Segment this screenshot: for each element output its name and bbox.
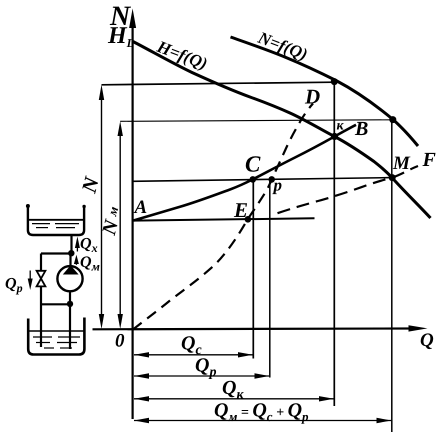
lower junction dot [67,301,73,307]
svg-text:B: B [354,118,368,140]
valve branch vertical lower [40,286,42,347]
shallow dashed curve through M and F [278,166,419,213]
point E [245,216,252,223]
lower tank walls [28,318,84,355]
point dot above M on N-curve [389,116,396,123]
svg-text:D: D [304,85,320,109]
dimension row Qp (y=376) [134,375,269,377]
svg-text:Qм = Qс + Qр: Qм = Qс + Qр [214,400,309,425]
point K [331,133,338,140]
curve N=f(Q) [231,37,419,146]
junction dot upper [68,250,74,256]
dropline from C (x=253) [252,179,254,358]
valve branch vertical upper [40,254,42,272]
lower tank water line [29,330,84,332]
dropline from P (x=269.8) [269,179,271,377]
Qm arrow (up) [75,260,77,265]
svg-text:Q: Q [420,330,434,351]
rising curve from A through C and K [134,125,357,221]
dimension line N (vertical, x=101.5) [101,96,103,318]
point C [250,176,257,183]
upper tank water hatches [32,223,50,225]
curve H=f(Q) [133,42,431,219]
Qx arrow (up) [76,242,78,252]
point dot above K on N-curve [331,78,338,85]
horizontal construction line through D-dot (y~84) [102,82,335,85]
pump triangle [63,265,79,274]
dimension row Qm=Qc+Qp (y=420.5) [134,420,391,422]
dimension row Qk (y=398.8) [134,398,334,400]
pipe down into lower tank [69,304,71,349]
svg-text:E: E [233,198,248,222]
horizontal axis Q [93,327,413,330]
horizontal connect lower [41,303,70,305]
horizontal construction line through C,P to M (y~179) [133,178,392,182]
pipe tank to junction [70,235,72,254]
dimension row Qc (y=354.8) [134,354,253,356]
Qp arrow (down) [29,271,31,281]
pipe pump to lower junction [69,291,71,304]
lower tank water hatches [33,336,52,338]
svg-text:p: p [272,176,283,195]
svg-text:к: к [337,119,345,134]
svg-text:C: C [245,152,261,177]
valve symbol [37,271,46,287]
point M [389,174,396,181]
upper tank water line [29,219,84,221]
dropline from M (x=391.8) [391,120,393,432]
svg-text:A: A [134,197,148,218]
dropline from K (x=334.3) [333,82,335,406]
steep dashed parabola O-E-P-D [133,104,313,330]
point P [268,176,275,183]
upper tank wall top dots [26,204,30,208]
svg-text:F: F [422,149,437,171]
pump circle [57,266,82,291]
horizontal construction line A to E (y~220) [133,218,315,220]
pipe junction to pump [69,254,71,267]
svg-text:0: 0 [115,331,125,352]
branch horizontal to valve [41,252,71,254]
horizontal construction line through M-dot (y~120.5) [120,120,393,122]
upper tank walls [28,206,84,236]
dimension line Nm (vertical, x=120.2) [119,132,121,318]
svg-text:M: M [392,153,411,174]
vertical axis N,H [132,24,134,419]
